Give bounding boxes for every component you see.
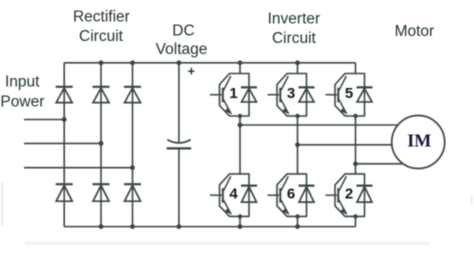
wire: leg 1 bottom stub <box>239 216 241 226</box>
wire: positive DC bus (top) <box>64 62 355 64</box>
gate lead Q6 <box>268 194 280 196</box>
base bar Q3 <box>279 88 281 103</box>
wire: rectifier leg 2 vertical <box>100 63 102 227</box>
transistor envelope Q6 <box>277 174 307 217</box>
freewheel diode D3 <box>299 86 315 88</box>
wire: leg 3 bottom stub <box>355 216 357 226</box>
transistor envelope Q1 <box>220 74 250 117</box>
IGBT Q5 (switch 5) <box>326 74 373 119</box>
faint scan artifact left edge <box>2 182 4 226</box>
svg-text:Motor: Motor <box>395 23 435 40</box>
collector line Q4 <box>223 176 230 191</box>
wire: leg 3 top stub <box>355 63 357 74</box>
diode D2 (upper rectifier leg 2) <box>93 87 110 103</box>
node: emitter junction Q5 <box>353 114 357 118</box>
node bottom bus / capacitor <box>177 224 182 229</box>
wire: input power phase 2 <box>24 142 101 144</box>
node: emitter junction Q1 <box>238 114 242 118</box>
wire: leg 3 midpoint <box>355 116 357 174</box>
capacitor C1 (DC link) <box>167 63 192 227</box>
faint scan artifact right edge <box>471 196 473 205</box>
svg-text:Voltage: Voltage <box>156 41 208 58</box>
node: emitter junction Q4 <box>238 214 242 218</box>
gate lead Q2 <box>326 194 338 196</box>
node phase A tap <box>238 123 243 128</box>
wire: rectifier leg 3 vertical <box>132 63 134 227</box>
IGBT Q3 (switch 3) <box>268 74 315 119</box>
gate lead Q3 <box>268 94 280 96</box>
node phase C tap <box>353 161 358 166</box>
faint scan artifact bottom band <box>25 242 430 245</box>
node top bus / leg 3 <box>130 60 135 65</box>
emitter line with arrow Q1 <box>223 99 231 114</box>
svg-text:+: + <box>188 63 196 78</box>
svg-text:2: 2 <box>345 185 353 202</box>
base bar Q5 <box>337 88 339 103</box>
node bottom bus / leg 2 <box>295 224 300 229</box>
diode D3 (upper rectifier leg 3) <box>124 87 141 103</box>
gate lead Q1 <box>210 94 222 96</box>
node bottom bus / leg 2 <box>99 224 104 229</box>
svg-text:Input: Input <box>5 73 40 90</box>
diode D1 (upper rectifier leg 1) <box>56 87 73 103</box>
emitter line with arrow Q2 <box>339 200 347 215</box>
svg-text:3: 3 <box>287 85 295 102</box>
node bottom bus / leg 3 <box>130 224 135 229</box>
label: DC Voltage <box>156 22 208 58</box>
collector line Q5 <box>339 76 346 91</box>
IGBT Q4 (switch 4) <box>210 174 257 219</box>
node bottom bus / leg 1 <box>238 224 243 229</box>
node input tap 1 <box>62 117 67 122</box>
transistor envelope Q2 <box>335 174 365 217</box>
node top bus / leg 2 <box>99 60 104 65</box>
base bar Q6 <box>279 188 281 203</box>
IGBT Q1 (switch 1) <box>210 74 257 119</box>
collector line Q6 <box>281 176 288 191</box>
node: emitter junction Q6 <box>295 214 299 218</box>
emitter line with arrow Q6 <box>281 200 289 215</box>
diode D6 (lower rectifier leg 3) <box>124 184 141 201</box>
wire: leg 2 midpoint <box>297 116 299 174</box>
node input tap 3 <box>130 165 135 170</box>
base bar Q2 <box>337 188 339 203</box>
svg-text:Circuit: Circuit <box>272 30 317 47</box>
node top bus / capacitor <box>177 60 182 65</box>
wire: motor phase B <box>298 144 419 146</box>
label: Inverter Circuit <box>268 11 321 48</box>
transistor envelope Q5 <box>335 74 365 117</box>
node top bus / leg 1 <box>238 60 243 65</box>
collector line Q3 <box>281 76 288 91</box>
collector line Q2 <box>339 176 346 191</box>
wire: rectifier leg 1 vertical <box>63 63 65 227</box>
transistor envelope Q4 <box>220 174 250 217</box>
freewheel diode D4 <box>241 185 257 187</box>
svg-text:Power: Power <box>0 94 44 111</box>
IGBT Q2 (switch 2) <box>326 174 373 219</box>
svg-text:1: 1 <box>229 85 237 102</box>
IGBT Q6 (switch 6) <box>268 174 315 219</box>
emitter line with arrow Q3 <box>281 99 289 114</box>
emitter line with arrow Q4 <box>223 200 231 215</box>
wire: negative DC bus (bottom) <box>64 226 355 228</box>
gate lead Q5 <box>326 94 338 96</box>
wire: input power phase 3 <box>24 167 133 169</box>
svg-text:6: 6 <box>287 185 295 202</box>
node top bus / leg 2 <box>295 60 300 65</box>
svg-text:5: 5 <box>345 85 353 102</box>
node input tap 2 <box>99 141 104 146</box>
node phase B tap <box>295 142 300 147</box>
wire: leg 1 top stub <box>239 63 241 74</box>
base bar Q1 <box>222 88 224 103</box>
gate lead Q4 <box>210 194 222 196</box>
motor M1 (induction motor) <box>392 116 445 169</box>
freewheel diode D5 <box>357 86 373 88</box>
svg-text:Circuit: Circuit <box>79 28 124 45</box>
wire: leg 1 midpoint <box>239 116 241 174</box>
wire: input power phase 1 <box>24 119 64 121</box>
svg-text:Inverter: Inverter <box>268 11 321 28</box>
transistor envelope Q3 <box>277 74 307 117</box>
wire: leg 2 bottom stub <box>297 216 299 226</box>
label: Rectifier Circuit <box>73 9 130 46</box>
node: emitter junction Q2 <box>353 214 357 218</box>
wire: leg 2 top stub <box>297 63 299 74</box>
diode D4 (lower rectifier leg 1) <box>56 184 73 201</box>
emitter line with arrow Q5 <box>339 99 347 114</box>
wire: motor phase C <box>356 163 419 165</box>
freewheel diode D1 <box>241 86 257 88</box>
svg-text:DC: DC <box>172 22 194 39</box>
label: Motor <box>395 23 435 40</box>
svg-text:4: 4 <box>229 185 238 202</box>
base bar Q4 <box>222 188 224 203</box>
freewheel diode D6 <box>299 185 315 187</box>
freewheel diode D2 <box>357 185 373 187</box>
svg-text:IM: IM <box>407 131 431 151</box>
wire: motor phase A <box>240 124 418 126</box>
collector line Q1 <box>223 76 230 91</box>
node: emitter junction Q3 <box>295 114 299 118</box>
diode D5 (lower rectifier leg 2) <box>93 184 110 201</box>
label: Input Power <box>0 73 44 110</box>
svg-text:Rectifier: Rectifier <box>73 9 130 26</box>
